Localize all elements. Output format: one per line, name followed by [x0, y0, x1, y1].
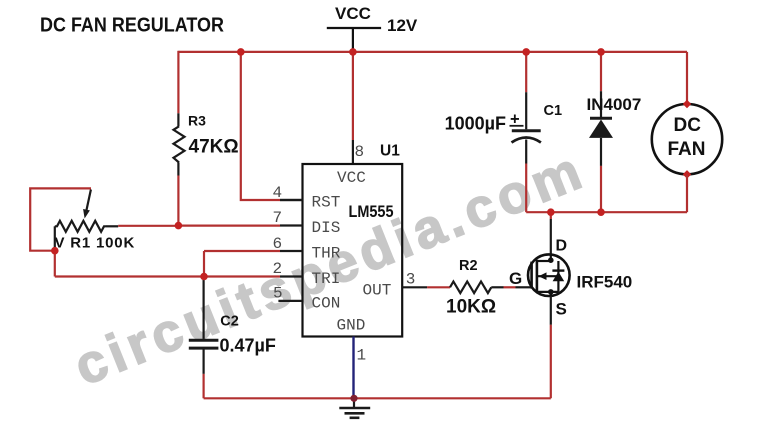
svg-text:VCC: VCC [335, 4, 371, 23]
node TRI junction [200, 273, 208, 281]
resistor R2 [446, 258, 496, 318]
resistor R3 [174, 113, 239, 176]
wire R3 branch upper [177, 51, 179, 114]
svg-text:5: 5 [273, 285, 283, 303]
wire C2 to bottom rail [203, 374, 205, 398]
pin 7 lead [280, 224, 303, 226]
svg-text:DC FAN REGULATOR: DC FAN REGULATOR [40, 15, 224, 37]
capacitor C1 [445, 52, 562, 164]
svg-text:CON: CON [312, 295, 341, 313]
svg-text:S: S [556, 300, 567, 319]
node DIS junction [175, 222, 183, 230]
svg-text:10KΩ: 10KΩ [446, 296, 496, 317]
wire drain lead [550, 212, 552, 219]
svg-text:8: 8 [355, 143, 365, 161]
wire R3 branch lower [177, 176, 179, 226]
IC U1 LM555 [303, 164, 403, 337]
ground [339, 398, 370, 418]
svg-text:1: 1 [357, 347, 367, 365]
wire R2 to gate [491, 286, 503, 288]
wire VCC to pin 8 [352, 52, 354, 140]
diode D1 IN4007 [587, 52, 642, 166]
svg-text:R2: R2 [459, 258, 478, 274]
svg-text:U1: U1 [380, 143, 400, 160]
wire THR [204, 250, 280, 252]
node ground junction [350, 395, 357, 402]
svg-text:FAN: FAN [668, 139, 706, 160]
svg-text:D: D [556, 238, 568, 255]
svg-text:2: 2 [273, 260, 283, 278]
svg-text:DIS: DIS [312, 219, 341, 237]
wire bottom rail [204, 397, 551, 399]
svg-text:C1: C1 [544, 103, 563, 119]
wire VR1 left terminal down [54, 226, 56, 248]
wire diode to drain rail [600, 166, 602, 212]
transistor Q1 IRF540 [509, 238, 632, 319]
potentiometer VR1 [55, 190, 136, 252]
svg-text:12V: 12V [387, 16, 418, 35]
wire VR1 right lead to DIS node [118, 225, 178, 227]
pin 5 lead [278, 300, 302, 302]
svg-text:TRI: TRI [312, 270, 341, 288]
wire TRI [55, 275, 280, 277]
wire pin 1 GND (navy) [352, 337, 354, 399]
motor DC FAN [652, 52, 722, 212]
svg-text:R3: R3 [188, 113, 206, 129]
wire OUT pin3 to R2 [402, 286, 427, 288]
svg-text:RST: RST [312, 194, 341, 212]
node drain rail junctions [547, 208, 555, 216]
VCC power symbol [327, 4, 381, 52]
svg-text:GND: GND [337, 317, 366, 335]
svg-text:7: 7 [273, 209, 283, 227]
svg-text:1000µF: 1000µF [445, 113, 506, 133]
svg-text:OUT: OUT [363, 281, 392, 299]
svg-text:3: 3 [406, 270, 416, 288]
node VR1 wiper junction [51, 247, 59, 255]
svg-text:47KΩ: 47KΩ [189, 136, 239, 157]
svg-text:THR: THR [312, 245, 341, 263]
svg-text:LM555: LM555 [349, 202, 394, 221]
wire source lead [550, 296, 552, 325]
pin 6 lead [280, 250, 303, 252]
svg-text:IN4007: IN4007 [587, 95, 642, 114]
wire VR1 wiper loop [30, 188, 91, 250]
pin 4 lead [280, 199, 303, 201]
svg-text:C2: C2 [220, 314, 239, 330]
svg-text:DC: DC [674, 115, 702, 136]
wire drain rail [526, 211, 687, 213]
svg-text:G: G [509, 269, 522, 288]
svg-text:V R1 100K: V R1 100K [55, 235, 136, 252]
wire C1 to drain rail [525, 164, 527, 213]
svg-text:VCC: VCC [337, 169, 366, 187]
node top rail junctions [237, 48, 245, 56]
svg-text:IRF540: IRF540 [577, 273, 633, 292]
wire DIS from node to pin 7 [178, 225, 280, 227]
svg-text:4: 4 [273, 184, 283, 202]
wire RST branch [241, 52, 280, 200]
capacitor C2 [189, 277, 276, 374]
svg-text:0.47µF: 0.47µF [220, 335, 276, 355]
pin 2 lead [280, 275, 303, 277]
wire top rail [178, 51, 687, 53]
